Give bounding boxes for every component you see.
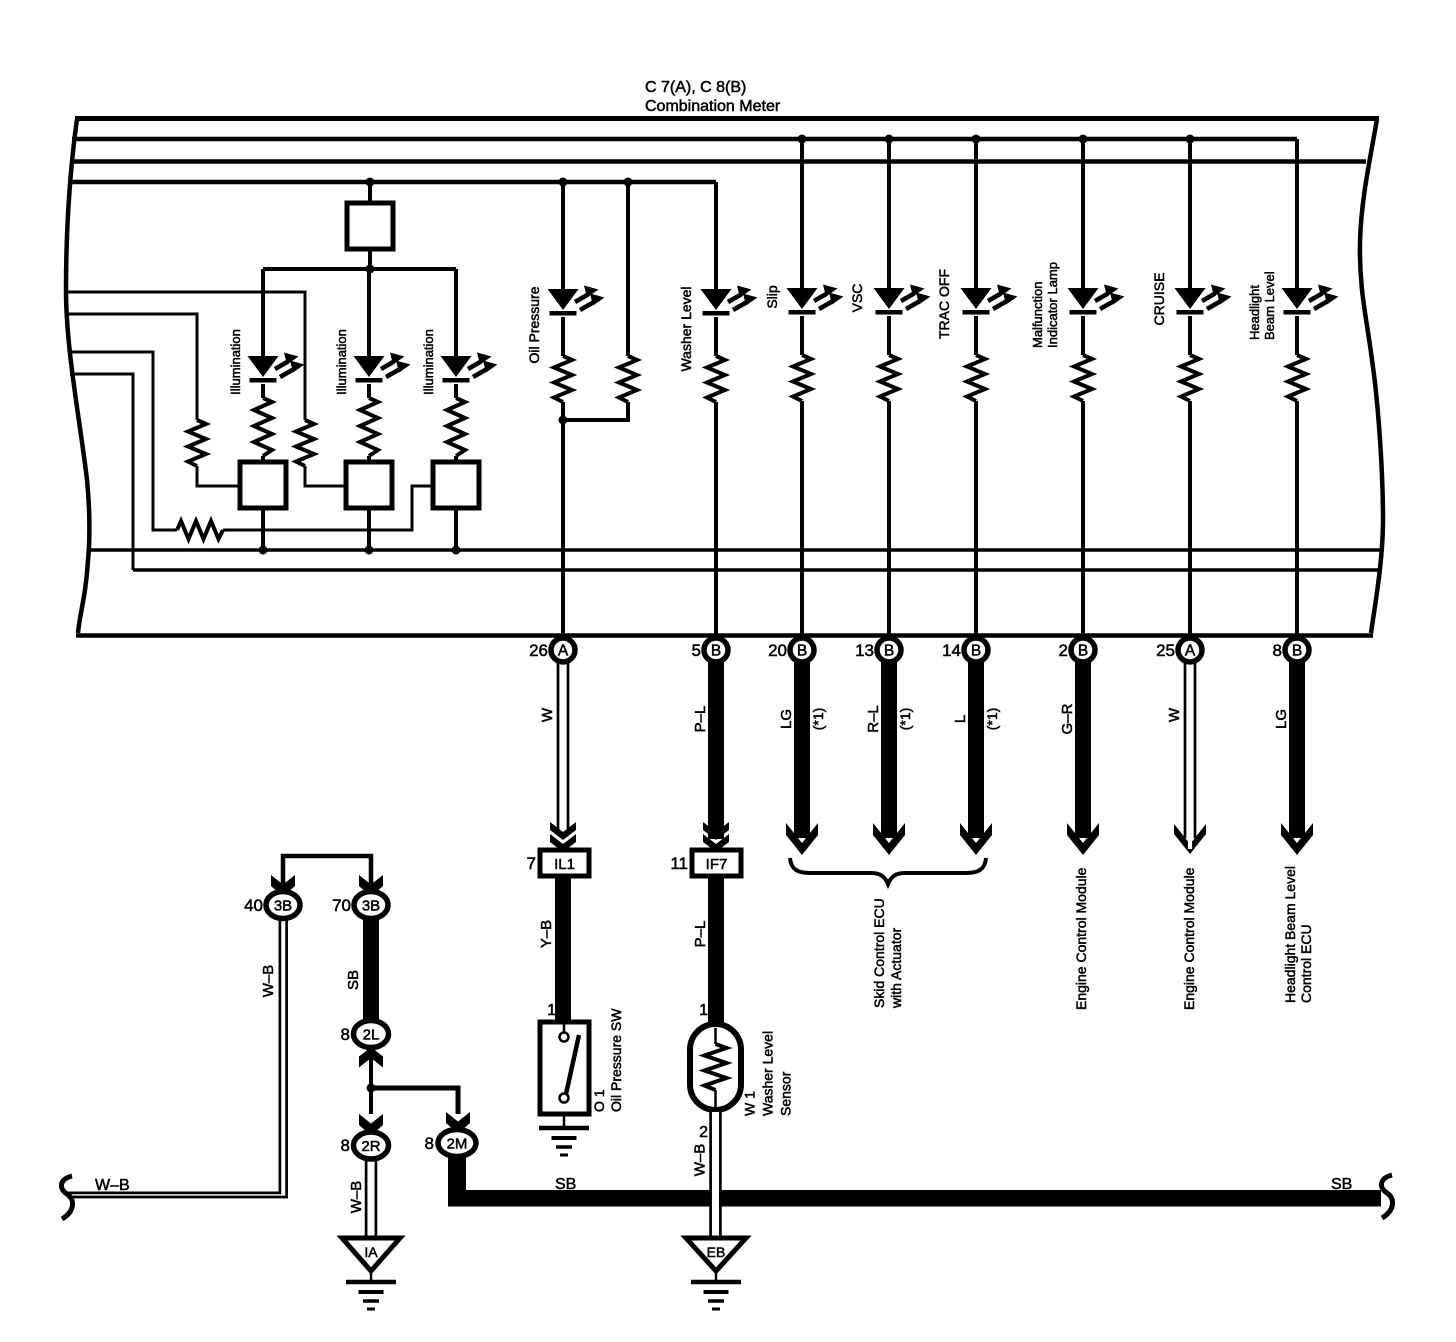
svg-text:IA: IA <box>364 1244 378 1260</box>
wire TRAC OFF LED anode <box>974 139 978 288</box>
wire G-R to engine control module (thick arrow) <box>1075 661 1091 838</box>
svg-text:Oil Pressure: Oil Pressure <box>526 286 542 363</box>
wire washer level to pin 5 <box>714 402 718 634</box>
svg-text:Control ECU: Control ECU <box>1298 924 1314 1003</box>
wire W-B from washer level sensor to ground EB (double line) <box>711 1112 719 1236</box>
svg-text:W: W <box>539 707 556 722</box>
wire internal return bus A <box>88 548 1381 552</box>
wire washer level LED anode <box>714 182 718 289</box>
svg-text:W–B: W–B <box>260 965 277 998</box>
wire CRUISE to pin <box>1188 401 1192 634</box>
svg-text:VSC: VSC <box>849 284 865 313</box>
wire junction to 2R <box>369 1088 373 1114</box>
svg-text:B: B <box>884 643 894 660</box>
resistor side branch 1 <box>188 420 206 466</box>
svg-text:Beam Level: Beam Level <box>1262 271 1277 340</box>
svg-text:IF7: IF7 <box>706 856 728 873</box>
svg-text:1: 1 <box>699 1002 708 1019</box>
wire P-L from pin 5 (thick) <box>708 661 724 839</box>
svg-text:26: 26 <box>529 641 548 660</box>
LED Illumination 2 <box>354 353 411 383</box>
wire TRAC OFF LED cathode <box>974 316 978 355</box>
svg-text:W: W <box>1166 707 1183 722</box>
wire illumination LED 3 anode <box>454 269 458 356</box>
wire Slip LED cathode <box>800 316 804 355</box>
wire Y-B from IL1 to oil pressure switch <box>555 876 571 1022</box>
node junction Slip feed <box>798 135 807 144</box>
resistor Slip branch <box>793 355 811 401</box>
wire SB ground bus (thick) <box>448 1190 1381 1207</box>
LED Malfunction Indicator Lamp <box>1068 285 1125 315</box>
svg-text:Oil Pressure SW: Oil Pressure SW <box>608 1008 624 1112</box>
svg-text:8: 8 <box>425 1134 434 1153</box>
resistor CRUISE branch <box>1181 355 1199 401</box>
wire washer level LED cathode <box>714 317 718 356</box>
svg-text:CRUISE: CRUISE <box>1151 273 1167 326</box>
wire illumination LED 1 cathode <box>261 384 265 398</box>
svg-text:13: 13 <box>855 641 874 660</box>
wire illumination LED 2 anode <box>367 269 371 356</box>
node junction oil pressure feed <box>559 178 568 187</box>
node junction on illumination feed bus <box>366 178 375 187</box>
wire SB from 3B pin 70 to 2L (thick) <box>363 918 379 1021</box>
LED CRUISE <box>1175 285 1232 315</box>
ground point EB <box>686 1238 746 1271</box>
wire LG to skid control ECU (thick arrow) <box>794 661 810 838</box>
svg-text:B: B <box>1292 643 1302 660</box>
pin 5 connector B of combination meter <box>704 638 728 662</box>
wire oil pressure switch to ground <box>563 1114 566 1128</box>
svg-text:C 7(A), C 8(B): C 7(A), C 8(B) <box>645 79 746 96</box>
connector 2L pin 8 <box>354 1021 389 1048</box>
driver box illumination 1 <box>240 462 286 508</box>
resistor illumination branch 1 <box>254 398 272 456</box>
svg-text:Headlight Beam Level: Headlight Beam Level <box>1282 866 1298 1003</box>
arrow into connector 3B pin 70 <box>359 875 383 897</box>
wire illumination branch line 3 with series resistor <box>68 352 177 530</box>
internal module box (illumination control) <box>347 203 393 249</box>
wire Malfunction Indicator Lamp LED anode <box>1081 139 1085 288</box>
svg-text:Malfunction: Malfunction <box>1030 282 1045 348</box>
resistor side branch 2 <box>296 420 314 466</box>
svg-text:(*1): (*1) <box>810 708 826 731</box>
connector IL1 <box>540 850 589 876</box>
pin 13 connector B of combination meter <box>877 638 901 662</box>
svg-text:3B: 3B <box>274 898 292 915</box>
svg-text:Y–B: Y–B <box>538 920 555 948</box>
wire TRAC OFF to pin <box>974 401 978 634</box>
wire from 2L to junction <box>369 1057 373 1088</box>
combination meter box outline (connector C7/C8) <box>66 119 89 633</box>
wire Slip to pin <box>800 401 804 634</box>
LED Headlight Beam Level <box>1282 285 1339 315</box>
svg-text:3B: 3B <box>362 898 380 915</box>
svg-text:B: B <box>971 643 981 660</box>
resistor illumination branch 2 <box>360 398 378 456</box>
svg-text:Illumination: Illumination <box>334 329 349 395</box>
svg-text:W 1: W 1 <box>742 1091 758 1116</box>
svg-text:2M: 2M <box>447 1136 468 1153</box>
svg-text:1: 1 <box>547 1002 556 1019</box>
switch O1 Oil Pressure SW <box>540 1022 589 1114</box>
wire SB from 2M to ground bus (thick) <box>448 1156 466 1196</box>
wire internal illumination feed bus <box>69 180 716 185</box>
connector 3B pin 70 <box>354 892 388 919</box>
arrow into connector IL1 <box>550 822 576 852</box>
resistor Malfunction Indicator Lamp branch <box>1074 355 1092 401</box>
resistor inside washer level sensor <box>705 1044 727 1090</box>
wire Malfunction Indicator Lamp LED cathode <box>1081 316 1085 355</box>
svg-text:G–R: G–R <box>1059 703 1076 734</box>
svg-text:11: 11 <box>670 854 688 873</box>
wire L to skid control ECU (thick arrow) <box>968 661 984 838</box>
pin 20 connector B of combination meter <box>790 638 814 662</box>
pin 25 connector A of combination meter <box>1178 638 1202 662</box>
svg-text:8: 8 <box>341 1025 350 1044</box>
pin 8 connector B of combination meter <box>1285 638 1309 662</box>
LED VSC <box>874 285 931 315</box>
arrow into connector 3B pin 40 <box>271 875 295 897</box>
svg-text:B: B <box>1078 643 1088 660</box>
svg-text:5: 5 <box>692 641 701 660</box>
continuation squiggle right <box>1381 1175 1392 1218</box>
svg-text:L: L <box>952 715 969 723</box>
wire illumination LED 3 cathode <box>454 384 458 398</box>
node junction on return bus 3 <box>452 546 461 555</box>
svg-text:SB: SB <box>555 1176 576 1193</box>
svg-text:(*1): (*1) <box>984 708 1000 731</box>
wire illumination feeder rail <box>263 267 456 271</box>
resistor washer level branch <box>707 356 725 402</box>
connector 2M pin 8 <box>438 1130 476 1157</box>
node junction on illumination feeder <box>366 265 375 274</box>
svg-text:25: 25 <box>1156 641 1175 660</box>
wire W-B from 2R to ground IA (double line) <box>366 1159 376 1237</box>
svg-text:Washer Level: Washer Level <box>760 1031 776 1116</box>
svg-text:P–L: P–L <box>692 921 709 948</box>
wire from module box to illumination feeder <box>368 249 372 269</box>
connector 3B pin 40 <box>266 892 300 919</box>
LED Illumination 3 <box>441 353 498 383</box>
ground symbol below EB <box>691 1282 741 1309</box>
wire internal return bus B <box>133 568 1382 572</box>
ground symbol below IA <box>346 1282 396 1309</box>
svg-text:2: 2 <box>699 1124 708 1141</box>
wire W to engine control module (double line arrow) <box>1185 661 1195 838</box>
svg-text:O 1: O 1 <box>591 1089 607 1112</box>
svg-text:SB: SB <box>345 970 362 990</box>
node junction below 2L <box>367 1084 376 1093</box>
svg-text:8: 8 <box>1273 641 1282 660</box>
svg-text:B: B <box>797 643 807 660</box>
wire illumination branch line 2 <box>66 314 197 420</box>
arrow up into connector 2L <box>359 1047 383 1068</box>
wire illumination box 1 to return bus <box>261 508 265 550</box>
node junction on return bus 2 <box>365 546 374 555</box>
wire internal bus to indicator LEDs (top) <box>72 137 1297 142</box>
svg-text:Slip: Slip <box>764 285 780 309</box>
svg-text:Illumination: Illumination <box>228 329 243 395</box>
wire illumination LED 2 cathode <box>367 384 371 398</box>
wire W-B from 3B pin 40 (double line) <box>68 918 287 1197</box>
svg-text:Skid Control ECU: Skid Control ECU <box>871 898 887 1008</box>
wire oil pressure LED anode <box>561 182 565 289</box>
node junction on return bus 1 <box>259 546 268 555</box>
svg-text:Engine Control Module: Engine Control Module <box>1181 867 1197 1010</box>
wire illumination box 2 to return bus <box>367 508 371 550</box>
pin 14 connector B of combination meter <box>964 638 988 662</box>
brace grouping skid control wires <box>790 858 986 884</box>
svg-text:Engine Control Module: Engine Control Module <box>1073 867 1089 1010</box>
wire P-L from IF7 to washer level sensor <box>708 876 724 1024</box>
wire illumination box 3 to return bus <box>454 508 458 550</box>
svg-text:Sensor: Sensor <box>778 1071 794 1116</box>
wire from bus to module box <box>368 182 372 203</box>
wire junction to 2M <box>371 1088 458 1114</box>
svg-text:2L: 2L <box>363 1027 380 1044</box>
arrow into connector 2M <box>446 1112 470 1134</box>
pin 26 connector A of combination meter <box>551 638 575 662</box>
arrow into connector IF7 <box>703 822 729 852</box>
svg-text:Headlight: Headlight <box>1247 285 1262 340</box>
svg-text:70: 70 <box>332 896 351 915</box>
continuation squiggle left <box>61 1176 72 1219</box>
resistor TRAC OFF branch <box>967 355 985 401</box>
wire oil pressure LED cathode <box>561 317 565 356</box>
svg-text:2R: 2R <box>361 1138 380 1155</box>
node junction VSC feed <box>885 135 894 144</box>
svg-text:P–L: P–L <box>692 706 709 733</box>
wire illumination branch line 4 <box>70 374 133 570</box>
wire CRUISE LED anode <box>1188 139 1192 288</box>
svg-text:2: 2 <box>1059 641 1068 660</box>
resistor parallel branch <box>619 356 637 402</box>
svg-text:8: 8 <box>341 1136 350 1155</box>
wire Slip LED anode <box>800 139 804 288</box>
resistor illumination branch 3 <box>447 398 465 456</box>
svg-text:A: A <box>1185 643 1196 660</box>
pin 2 connector B of combination meter <box>1071 638 1095 662</box>
svg-text:20: 20 <box>768 641 787 660</box>
LED Washer Level <box>701 286 758 316</box>
driver box illumination 2 <box>346 462 392 508</box>
node junction TRAC OFF feed <box>972 135 981 144</box>
connector IF7 <box>692 850 741 876</box>
svg-text:SB: SB <box>1331 1176 1352 1193</box>
wire Headlight Beam Level LED cathode <box>1295 316 1299 355</box>
svg-text:40: 40 <box>244 896 263 915</box>
wire VSC LED cathode <box>887 316 891 355</box>
node junction CRUISE feed <box>1186 135 1195 144</box>
sensor W1 Washer Level Sensor <box>690 1024 741 1110</box>
wire Headlight Beam Level to pin <box>1295 401 1299 634</box>
wire Malfunction Indicator Lamp to pin <box>1081 401 1085 634</box>
svg-text:Combination Meter: Combination Meter <box>645 98 781 115</box>
wire VSC LED anode <box>887 139 891 288</box>
wire LG to headlight beam level control ECU (thick arrow) <box>1289 661 1305 838</box>
driver box illumination 3 <box>433 462 479 508</box>
LED Illumination 1 <box>248 353 305 383</box>
wire W from pin 26 (double line) <box>558 661 568 832</box>
svg-text:W–B: W–B <box>348 1181 365 1214</box>
wire internal bus 2 <box>70 159 1366 164</box>
arrow into connector 2R <box>359 1114 383 1136</box>
wire headlight beam level LED anode (bus corner) <box>1295 139 1299 288</box>
svg-text:IL1: IL1 <box>554 856 575 873</box>
node junction parallel resistor feed <box>624 178 633 187</box>
ground point IA <box>342 1238 400 1271</box>
svg-text:7: 7 <box>527 854 536 873</box>
svg-text:R–L: R–L <box>865 705 882 733</box>
wire illumination branch line 1 <box>66 292 305 420</box>
svg-text:LG: LG <box>1273 709 1290 729</box>
wire illumination LED 1 anode <box>261 269 265 356</box>
svg-text:W–B: W–B <box>692 1144 709 1177</box>
wire jumper bridge between connectors 3B <box>283 856 371 884</box>
wire VSC to pin <box>887 401 891 634</box>
svg-text:with Actuator: with Actuator <box>888 928 904 1009</box>
LED TRAC OFF <box>961 285 1018 315</box>
wire parallel resistor branch <box>626 182 630 356</box>
wire oil pressure to pin 26 <box>561 402 565 634</box>
node junction oil pressure / parallel resistor <box>559 416 568 425</box>
resistor oil pressure branch <box>554 356 572 402</box>
svg-text:Indicator Lamp: Indicator Lamp <box>1045 262 1060 348</box>
svg-text:TRAC OFF: TRAC OFF <box>936 269 952 339</box>
wire R–L to skid control ECU (thick arrow) <box>881 661 897 838</box>
svg-text:B: B <box>711 643 721 660</box>
svg-text:EB: EB <box>707 1244 726 1260</box>
wire parallel resistor to junction <box>563 402 628 420</box>
wire CRUISE LED cathode <box>1188 316 1192 355</box>
svg-text:A: A <box>558 643 569 660</box>
svg-text:Washer Level: Washer Level <box>678 286 694 371</box>
ground below oil pressure switch <box>539 1128 589 1155</box>
resistor VSC branch <box>880 355 898 401</box>
svg-text:Illumination: Illumination <box>421 329 436 395</box>
node junction Malfunction Indicator Lamp feed <box>1079 135 1088 144</box>
svg-text:(*1): (*1) <box>897 708 913 731</box>
LED Slip <box>787 285 844 315</box>
svg-text:LG: LG <box>778 709 795 729</box>
LED Oil Pressure <box>548 286 605 316</box>
resistor Headlight Beam Level branch <box>1288 355 1306 401</box>
svg-text:14: 14 <box>942 641 961 660</box>
connector 2R pin 8 <box>354 1132 389 1159</box>
svg-text:W–B: W–B <box>95 1177 130 1194</box>
